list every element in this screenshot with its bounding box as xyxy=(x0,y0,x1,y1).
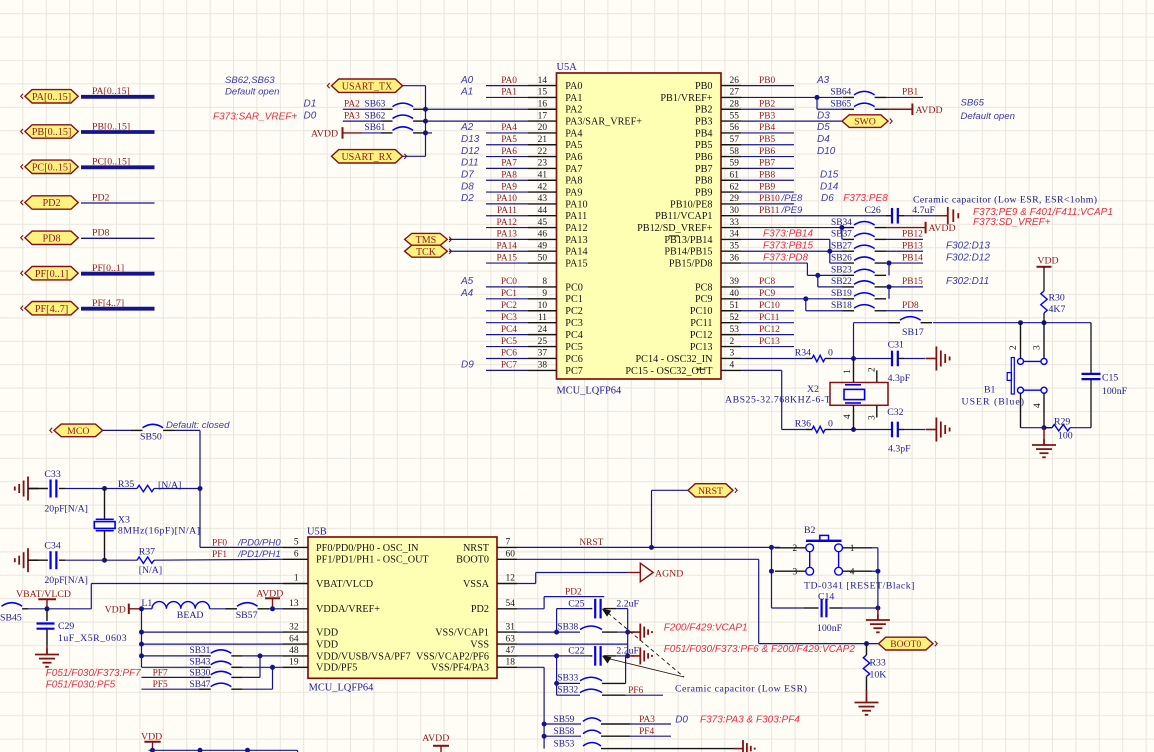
svg-text:C32: C32 xyxy=(887,407,903,418)
svg-text:SB26: SB26 xyxy=(831,253,852,263)
svg-text:0: 0 xyxy=(828,348,833,359)
svg-text:C25: C25 xyxy=(568,598,584,609)
net label PA2 xyxy=(344,100,360,110)
svg-text:D6: D6 xyxy=(821,193,834,204)
svg-text:39: 39 xyxy=(730,277,740,287)
svg-text:PB8: PB8 xyxy=(759,170,775,180)
svg-text:PD2: PD2 xyxy=(471,604,489,615)
svg-text:PA2: PA2 xyxy=(344,100,360,110)
svg-text:63: 63 xyxy=(506,634,516,644)
svg-text:2.2uF: 2.2uF xyxy=(616,598,639,609)
svg-text:12: 12 xyxy=(506,574,516,584)
port PD2 xyxy=(21,196,78,209)
solder bridge SB38 xyxy=(557,622,628,632)
svg-text:PD2: PD2 xyxy=(565,587,582,597)
wire VDD pin48 xyxy=(142,655,205,657)
wire pin36 net xyxy=(741,252,808,275)
svg-text:PA14: PA14 xyxy=(497,241,518,251)
svg-text:B2: B2 xyxy=(804,525,816,536)
port TCK xyxy=(405,245,486,258)
svg-text:PC1: PC1 xyxy=(565,294,583,305)
svg-text:4.3pF: 4.3pF xyxy=(888,373,911,384)
svg-text:Default open: Default open xyxy=(961,111,1015,122)
svg-text:AVDD: AVDD xyxy=(311,129,338,140)
svg-text:PF[4..7]: PF[4..7] xyxy=(92,298,124,309)
ground at R33 xyxy=(855,690,879,715)
solder bridge SB34 xyxy=(831,218,886,228)
svg-text:PC2: PC2 xyxy=(501,301,517,311)
svg-text:SB38: SB38 xyxy=(557,622,578,632)
wire VSS row pin63 xyxy=(517,643,628,645)
svg-text:USER (Blue): USER (Blue) xyxy=(962,397,1026,408)
wire PA2 net xyxy=(343,108,425,110)
svg-text:TCK: TCK xyxy=(416,247,437,258)
svg-text:SB23: SB23 xyxy=(831,266,852,276)
port PD8 xyxy=(21,231,78,244)
solder bridge SB57 xyxy=(226,603,270,621)
svg-text:0: 0 xyxy=(828,419,833,430)
svg-text:16: 16 xyxy=(538,99,548,109)
port MCO xyxy=(50,424,103,437)
svg-text:F302:D13: F302:D13 xyxy=(946,240,990,251)
solder bridge SB17 xyxy=(889,317,933,338)
solder bridge SB27 xyxy=(831,241,886,251)
svg-text:PF[4..7]: PF[4..7] xyxy=(35,304,68,315)
svg-text:D0: D0 xyxy=(304,110,317,121)
svg-text:PB6: PB6 xyxy=(695,152,713,163)
note SB62,SB63 default open xyxy=(225,75,279,98)
svg-text:PC7: PC7 xyxy=(565,366,583,377)
wire PC15 OSC32_OUT xyxy=(741,370,811,429)
power AGND xyxy=(640,563,683,582)
svg-text:D0: D0 xyxy=(675,714,688,725)
wire VDD pin32 xyxy=(142,631,284,633)
wire pin33 net xyxy=(741,225,844,239)
svg-text:PB2: PB2 xyxy=(759,99,775,109)
resistor R35 N/A xyxy=(118,479,200,492)
solder bridge SB58 xyxy=(544,727,671,737)
svg-text:SB19: SB19 xyxy=(831,289,852,299)
svg-text:21: 21 xyxy=(538,135,548,145)
svg-text:PC7: PC7 xyxy=(501,361,517,371)
svg-text:PC12: PC12 xyxy=(759,325,780,335)
capacitor C31 4.3pF xyxy=(854,340,926,384)
wire PB0 xyxy=(741,75,830,86)
svg-text:SB62: SB62 xyxy=(365,111,386,121)
solder bridge SB37 xyxy=(831,230,886,240)
svg-text:PC2: PC2 xyxy=(565,306,583,317)
svg-text:AVDD: AVDD xyxy=(422,733,449,744)
svg-text:PA11: PA11 xyxy=(497,206,517,216)
svg-text:PA6: PA6 xyxy=(565,152,582,163)
MCU U5A xyxy=(557,62,722,397)
svg-text:PF4: PF4 xyxy=(639,727,654,737)
svg-text:F373:PE8: F373:PE8 xyxy=(843,193,888,204)
solder bridge SB62 xyxy=(365,111,425,121)
svg-text:PD8: PD8 xyxy=(42,233,60,244)
wire column to SB33 xyxy=(554,656,559,686)
svg-text:PA1: PA1 xyxy=(501,88,517,98)
power AVDD at pin13 xyxy=(256,588,283,608)
svg-text:PB[0..15]: PB[0..15] xyxy=(32,127,72,138)
svg-text:PF[0..1]: PF[0..1] xyxy=(92,263,124,274)
wire VBAT net xyxy=(28,584,283,612)
svg-text:49: 49 xyxy=(538,241,548,251)
svg-text:BOOT0: BOOT0 xyxy=(890,639,921,650)
svg-text:14: 14 xyxy=(538,76,548,86)
capacitor C33 20pF xyxy=(28,469,105,515)
solder bridge SB63 xyxy=(365,100,425,110)
wire PC13 xyxy=(741,337,794,347)
svg-text:52: 52 xyxy=(730,313,740,323)
svg-text:D15: D15 xyxy=(820,169,839,180)
svg-text:58: 58 xyxy=(730,147,740,157)
U5B pins and pin numbers xyxy=(283,538,517,668)
ground at C33 xyxy=(15,477,39,501)
wire VSS/PF4/PA3 net xyxy=(517,667,547,748)
svg-text:B1: B1 xyxy=(984,385,996,396)
power AVDD at SB65 xyxy=(886,104,943,116)
svg-text:D10: D10 xyxy=(817,146,836,157)
svg-text:PC3: PC3 xyxy=(501,313,517,323)
svg-text:7: 7 xyxy=(506,538,511,548)
svg-text:PA8: PA8 xyxy=(501,170,517,180)
svg-text:PB[0..15]: PB[0..15] xyxy=(92,121,130,132)
svg-text:SB53: SB53 xyxy=(554,739,575,749)
svg-text:PB2: PB2 xyxy=(695,105,713,116)
svg-text:PB4: PB4 xyxy=(695,128,713,139)
wire VDDA net xyxy=(269,606,283,611)
wire PC12 xyxy=(741,325,794,335)
wire PB10/PE8 xyxy=(741,193,888,204)
svg-text:3: 3 xyxy=(868,415,878,420)
net label PF1 xyxy=(212,549,281,560)
svg-text:SB57: SB57 xyxy=(236,610,258,621)
svg-text:PB3: PB3 xyxy=(695,116,713,127)
resistor R33 10K xyxy=(863,644,886,696)
svg-text:VSS: VSS xyxy=(470,640,489,651)
svg-text:NRST: NRST xyxy=(463,543,490,554)
svg-text:TD-0341 [RESET/Black]: TD-0341 [RESET/Black] xyxy=(804,580,915,591)
svg-text:PC5: PC5 xyxy=(565,342,583,353)
svg-text:59: 59 xyxy=(730,159,740,169)
svg-text:SB37: SB37 xyxy=(831,230,852,240)
svg-text:VSS/PF4/PA3: VSS/PF4/PA3 xyxy=(431,663,489,674)
solder bridge SB33 xyxy=(557,656,626,684)
wire PB11/PE9 net xyxy=(741,205,886,216)
wire PB2 xyxy=(741,99,794,109)
svg-text:TMS: TMS xyxy=(416,235,437,246)
svg-text:D2: D2 xyxy=(461,193,474,204)
svg-text:F373:PD8: F373:PD8 xyxy=(763,252,808,263)
svg-text:F373:PB15: F373:PB15 xyxy=(763,240,813,251)
svg-text:F051/F030/F373:PF6 & F200/F429: F051/F030/F373:PF6 & F200/F429:VCAP2 xyxy=(664,644,856,655)
MCU U5B xyxy=(307,527,497,694)
svg-text:SB27: SB27 xyxy=(831,241,852,251)
svg-text:PA15: PA15 xyxy=(565,258,587,269)
port PF[0..1] xyxy=(21,267,78,280)
svg-text:NRST: NRST xyxy=(698,486,723,497)
note ceramic capacitor ESR xyxy=(913,195,1097,206)
svg-text:PA7: PA7 xyxy=(501,159,517,169)
svg-text:1: 1 xyxy=(850,544,855,554)
wire PC10 xyxy=(741,301,794,311)
solder bridge SB47 xyxy=(190,680,273,690)
solder bridge SB31 xyxy=(190,646,284,677)
svg-text:5: 5 xyxy=(294,538,299,548)
svg-text:AGND: AGND xyxy=(655,569,683,580)
svg-text:PF6: PF6 xyxy=(628,686,643,696)
svg-text:Default: closed: Default: closed xyxy=(166,420,230,431)
ground at C34 xyxy=(15,548,39,572)
svg-text:SB43: SB43 xyxy=(190,658,211,668)
crystal X2 xyxy=(725,358,888,429)
net label PB[0..15] xyxy=(92,121,130,132)
svg-text:28: 28 xyxy=(730,99,740,109)
svg-text:PC0: PC0 xyxy=(565,282,583,293)
svg-text:18: 18 xyxy=(506,658,516,668)
svg-text:4.7uF: 4.7uF xyxy=(912,205,935,216)
resistor R34 0 xyxy=(806,348,856,362)
U5A left wires and net labels PA xyxy=(426,75,529,263)
ground at C14 xyxy=(866,608,890,632)
svg-text:PC10: PC10 xyxy=(759,301,780,311)
wire pin35 net xyxy=(741,240,843,263)
svg-text:R35: R35 xyxy=(118,479,134,490)
pushbutton B1 USER xyxy=(962,323,1048,428)
svg-text:SB17: SB17 xyxy=(902,327,924,338)
svg-text:PB9: PB9 xyxy=(695,187,713,198)
svg-text:F051/F030/F373:PF7: F051/F030/F373:PF7 xyxy=(46,668,141,679)
svg-text:PF[0..1]: PF[0..1] xyxy=(35,269,68,280)
svg-text:31: 31 xyxy=(506,622,516,632)
capacitor C29 1uF xyxy=(37,609,128,654)
svg-text:PC1: PC1 xyxy=(501,289,517,299)
svg-text:F373:SAR_VREF+: F373:SAR_VREF+ xyxy=(213,112,297,123)
svg-text:PA12: PA12 xyxy=(497,218,518,228)
svg-text:/PE8: /PE8 xyxy=(781,193,803,204)
resistor R36 0 xyxy=(806,419,856,433)
svg-text:2: 2 xyxy=(868,367,878,372)
wire PC8 xyxy=(741,277,794,287)
svg-text:PA10: PA10 xyxy=(497,194,518,204)
wire PB6 xyxy=(741,146,836,157)
svg-text:PB15: PB15 xyxy=(902,277,923,287)
svg-text:BOOT0: BOOT0 xyxy=(456,555,489,566)
svg-text:PB10/PE8: PB10/PE8 xyxy=(670,199,712,210)
inductor L1 BEAD xyxy=(139,598,230,621)
power AVDD at SB34 xyxy=(886,222,956,234)
svg-text:AVDD: AVDD xyxy=(916,105,943,116)
net label PA[0..15] xyxy=(92,86,130,97)
svg-text:2.2uF: 2.2uF xyxy=(616,646,639,657)
svg-text:PB12: PB12 xyxy=(902,230,923,240)
svg-text:/PE9: /PE9 xyxy=(781,205,803,216)
svg-text:40: 40 xyxy=(730,289,740,299)
svg-text:PC0: PC0 xyxy=(501,277,517,287)
wire PB1 xyxy=(886,88,923,98)
svg-text:48: 48 xyxy=(289,646,299,656)
U5B pin names xyxy=(316,543,490,674)
wire VDD pin64 xyxy=(142,643,284,645)
svg-text:D5: D5 xyxy=(817,122,830,133)
svg-text:PC12: PC12 xyxy=(690,330,713,341)
svg-text:PF7: PF7 xyxy=(153,668,168,678)
svg-text:SB61: SB61 xyxy=(365,123,386,133)
port PA[0..15] xyxy=(21,90,78,103)
svg-text:2: 2 xyxy=(730,337,735,347)
svg-text:PB6: PB6 xyxy=(759,147,775,157)
svg-text:D1: D1 xyxy=(304,98,317,109)
svg-text:3: 3 xyxy=(730,349,735,359)
svg-text:SB32: SB32 xyxy=(557,685,578,695)
svg-text:C34: C34 xyxy=(44,541,60,552)
svg-text:4: 4 xyxy=(730,361,735,371)
wire BOOT0 net xyxy=(517,559,879,646)
svg-text:PC4: PC4 xyxy=(565,330,583,341)
svg-text:35: 35 xyxy=(730,241,740,251)
svg-text:PB10: PB10 xyxy=(759,194,780,204)
svg-text:PD8: PD8 xyxy=(902,301,919,311)
svg-text:PC13: PC13 xyxy=(690,342,713,353)
svg-text:50: 50 xyxy=(538,253,548,263)
svg-text:PF0: PF0 xyxy=(212,538,227,548)
solder bridge SB59 xyxy=(544,715,671,725)
svg-text:SB64: SB64 xyxy=(830,88,851,98)
svg-text:VDD/VUSB/VSA/PF7: VDD/VUSB/VSA/PF7 xyxy=(316,651,411,662)
capacitor C25 2.2uF xyxy=(557,598,640,632)
wire PB5 xyxy=(741,134,830,145)
svg-text:PB1: PB1 xyxy=(902,88,918,98)
wire PD8 label xyxy=(886,301,923,311)
svg-text:29: 29 xyxy=(730,194,740,204)
svg-text:4: 4 xyxy=(1033,403,1043,408)
wire PC9 net xyxy=(741,289,843,311)
svg-text:24: 24 xyxy=(538,325,548,335)
svg-text:100nF: 100nF xyxy=(1102,386,1128,397)
wire PB7 xyxy=(741,159,794,169)
svg-text:17: 17 xyxy=(538,111,548,121)
svg-text:46: 46 xyxy=(538,230,548,240)
svg-text:9: 9 xyxy=(542,289,547,299)
net label PA3 xyxy=(344,111,360,121)
svg-text:PC13: PC13 xyxy=(759,337,780,347)
wire C33 node xyxy=(102,486,137,491)
svg-text:SB50: SB50 xyxy=(140,431,162,442)
wire MCO to PF0 xyxy=(175,430,284,547)
svg-text:10K: 10K xyxy=(870,669,887,680)
svg-text:32: 32 xyxy=(289,622,299,632)
note F200/F429:VCAP1 xyxy=(664,623,748,634)
svg-text:VBAT/VLCD: VBAT/VLCD xyxy=(16,589,71,600)
svg-text:VDD: VDD xyxy=(316,628,338,639)
svg-text:R37: R37 xyxy=(139,547,155,558)
svg-text:PC4: PC4 xyxy=(501,325,517,335)
svg-text:SB18: SB18 xyxy=(831,301,852,311)
solder bridge SB26 xyxy=(830,253,886,263)
svg-text:PA4: PA4 xyxy=(501,123,517,133)
svg-text:SB34: SB34 xyxy=(831,218,852,228)
svg-text:F373:PA3 & F303:PF4: F373:PA3 & F303:PF4 xyxy=(700,714,800,725)
solder bridge SB18 xyxy=(806,301,886,311)
svg-text:D14: D14 xyxy=(820,181,839,192)
svg-text:PC[0..15]: PC[0..15] xyxy=(92,157,130,168)
svg-text:MCU_LQFP64: MCU_LQFP64 xyxy=(557,386,622,397)
wire PB12 xyxy=(886,230,923,240)
resistor R37 N/A xyxy=(105,547,284,576)
svg-text:PC10: PC10 xyxy=(690,306,713,317)
svg-text:PF0/PD0/PH0 - OSC_IN: PF0/PD0/PH0 - OSC_IN xyxy=(316,543,419,554)
port PB[0..15] xyxy=(21,125,78,138)
crystal X3 8MHz xyxy=(94,489,200,563)
svg-text:PB11/VCAP1: PB11/VCAP1 xyxy=(655,211,712,222)
solder bridge SB61 xyxy=(365,123,425,133)
svg-text:F051/F030:PF5: F051/F030:PF5 xyxy=(46,680,116,691)
svg-text:13: 13 xyxy=(289,599,299,609)
svg-text:54: 54 xyxy=(506,599,516,609)
ground at C29 xyxy=(35,649,59,667)
net label PA3 xyxy=(639,714,800,725)
svg-text:PB9: PB9 xyxy=(759,182,775,192)
solder bridge SB30 xyxy=(190,668,261,678)
svg-text:SB31: SB31 xyxy=(190,646,211,656)
svg-text:PB5: PB5 xyxy=(695,140,713,151)
pushbutton B2 RESET xyxy=(793,525,915,591)
svg-text:PB7: PB7 xyxy=(759,159,775,169)
svg-text:25: 25 xyxy=(538,337,548,347)
wire PA3 net xyxy=(343,120,381,122)
svg-text:D7: D7 xyxy=(461,169,474,180)
svg-text:BEAD: BEAD xyxy=(177,610,204,621)
svg-text:PC9: PC9 xyxy=(759,289,775,299)
power VDD at R30 xyxy=(1037,256,1059,292)
note F373:PE9 and VCAP1 xyxy=(973,207,1113,228)
svg-text:PF1/PD1/PH1 - OSC_OUT: PF1/PD1/PH1 - OSC_OUT xyxy=(316,555,429,566)
solder bridge SB53 xyxy=(554,739,626,749)
solder bridge SB65 xyxy=(817,99,886,109)
svg-text:41: 41 xyxy=(538,170,548,180)
svg-text:55: 55 xyxy=(730,111,740,121)
svg-text:Ceramic capacitor (Low ESR, ES: Ceramic capacitor (Low ESR, ESR<1ohm) xyxy=(913,195,1097,206)
svg-text:3: 3 xyxy=(793,567,798,577)
svg-text:U5A: U5A xyxy=(557,62,578,73)
svg-text:PA9: PA9 xyxy=(501,182,517,192)
wire PB4 xyxy=(741,122,830,133)
capacitor C22 2.2uF xyxy=(517,646,640,666)
port NRST xyxy=(688,484,737,497)
solder bridge SB32 xyxy=(557,683,663,695)
net label PF[0..1] xyxy=(92,263,124,274)
svg-text:VDD: VDD xyxy=(316,640,338,651)
capacitor C26 4.7uF xyxy=(865,205,937,224)
solder bridge SB45 xyxy=(0,603,28,624)
svg-text:C33: C33 xyxy=(44,469,60,480)
svg-text:R36: R36 xyxy=(795,419,811,430)
solder bridge SB23 xyxy=(807,266,886,287)
svg-text:VDDA/VREF+: VDDA/VREF+ xyxy=(316,604,380,615)
wire VCAP1 column xyxy=(625,609,630,659)
bus PC[0..15] xyxy=(81,165,155,169)
svg-text:57: 57 xyxy=(730,135,740,145)
svg-text:PA0: PA0 xyxy=(565,81,582,92)
wire PF5 net xyxy=(46,680,204,691)
label D1 xyxy=(304,98,317,109)
svg-text:PF5: PF5 xyxy=(153,680,168,690)
svg-text:PC11: PC11 xyxy=(690,318,712,329)
wire PB15 xyxy=(886,276,989,299)
svg-text:26: 26 xyxy=(730,76,740,86)
svg-text:PC14 - OSC32_IN: PC14 - OSC32_IN xyxy=(636,354,714,365)
